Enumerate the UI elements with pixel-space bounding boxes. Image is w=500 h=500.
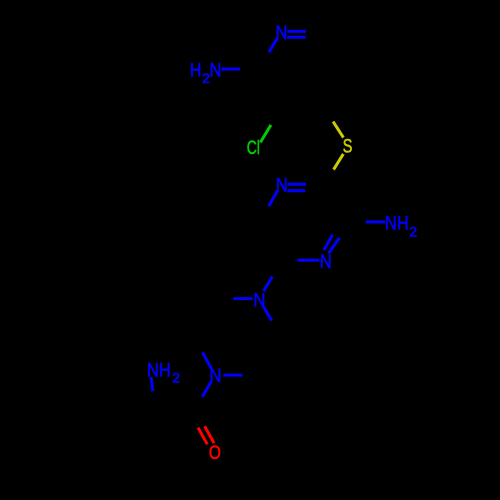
sulfur S thioether label <box>343 136 353 158</box>
wire piperazine N1-C5(pyrazine) bond (N half) <box>264 277 273 292</box>
svg-text:N: N <box>210 60 222 82</box>
svg-text:H: H <box>397 212 409 234</box>
svg-text:H: H <box>190 60 202 82</box>
wire piperazine N4-C(=O) amide bond (N half) <box>202 381 211 397</box>
amine H2N label on pyridine C2 <box>190 60 222 86</box>
wire pyridine N1=C6 double bond outer line (N half) <box>287 30 306 33</box>
svg-text:N: N <box>147 359 159 381</box>
wire pyrazine N4=C3 double bond main line (N half) <box>329 238 340 254</box>
wire piperazine N1-C6 ring bond (N half) <box>233 297 252 300</box>
svg-text:N: N <box>385 212 397 234</box>
wire pyrazine N1=C2 double bond outer line (N half) <box>288 183 306 186</box>
node piperazine ring N4 (amide N) <box>210 365 222 387</box>
amine NH2 label on pyrazine C3 <box>385 212 418 239</box>
svg-text:Cl: Cl <box>247 137 260 159</box>
wire pyrazine N1=C2 double bond inner line (N half) <box>288 189 306 192</box>
amine NH2 label on alpha carbon <box>147 359 180 385</box>
wire pyrazine N1-C6 bond (N half) <box>269 191 278 207</box>
wire C3-NH2 bond (N half) <box>366 220 385 223</box>
svg-text:O: O <box>209 442 221 464</box>
svg-text:2: 2 <box>409 224 417 240</box>
svg-text:N: N <box>276 22 288 44</box>
chlorine Cl label <box>247 137 260 159</box>
wire C=O double bond right line (O half) <box>205 426 214 443</box>
wire S-C4(pyridine) bond (S half) <box>333 122 343 138</box>
oxygen O carbonyl label <box>209 442 221 464</box>
svg-text:N: N <box>254 289 266 311</box>
svg-text:H: H <box>159 359 171 381</box>
svg-text:S: S <box>343 136 353 158</box>
svg-text:N: N <box>276 174 288 196</box>
svg-text:N: N <box>320 251 332 273</box>
wire pyrazine N4=C3 double bond inner line (N half) <box>324 235 333 251</box>
wire piperazine N4-C5 ring bond (N half) <box>202 352 211 368</box>
wire pyridine N1-C2 bond (N half) <box>269 38 277 53</box>
wire pyrazine N4-C5 bond (N half) <box>298 259 320 262</box>
wire Cl-C3 bond (Cl half) <box>260 125 271 142</box>
wire S-C2(pyrazine) bond (S half) <box>334 154 344 170</box>
wire C=O double bond left line (O half) <box>198 428 207 445</box>
node piperazine ring N1 <box>254 289 266 311</box>
svg-text:2: 2 <box>172 369 180 385</box>
node pyrazine ring N4 <box>320 251 332 273</box>
wire piperazine N4-C3 ring bond (N half) <box>224 374 243 377</box>
node pyridine ring N1 <box>276 22 288 44</box>
wire piperazine N1-C2 ring bond (N half) <box>263 305 272 321</box>
node pyrazine ring N1 <box>276 174 288 196</box>
wire amine H2N-C2 bond (N half) <box>222 68 241 71</box>
svg-text:N: N <box>210 365 222 387</box>
wire H2N-CH(alpha) bond (N half) <box>151 377 153 391</box>
wire pyridine N1=C6 double bond inner line (N half) <box>287 36 305 39</box>
